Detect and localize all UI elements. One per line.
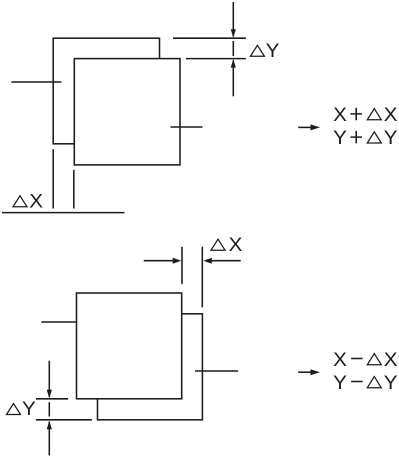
- bottom dX dimension: right vertical line (back square right edge extended): [201, 247, 203, 308]
- top diagram: front square (shifted +X +Y), occludes back square: [74, 59, 180, 165]
- bottom dY label: triangle (delta): [7, 404, 21, 415]
- svg-text:Y: Y: [266, 41, 280, 62]
- bottom dY dimension: down arrowhead: [47, 390, 52, 398]
- top dX label: triangle (delta): [13, 196, 27, 207]
- top dX dimension: right vertical line (front square left edge extended): [73, 170, 75, 209]
- bottom dY dimension: upper dimension line (front square bottom edge extended): [36, 398, 68, 400]
- top dY dimension: up arrowhead: [231, 59, 236, 67]
- top dY label: triangle (delta): [250, 45, 264, 56]
- bottom diagram: front square (nominal position), occludes back square: [77, 293, 182, 399]
- top result arrow: [298, 126, 313, 128]
- bottom result arrow: [298, 371, 313, 373]
- top diagram: right center tick: [171, 126, 203, 128]
- svg-text:X: X: [384, 350, 398, 371]
- svg-text:X: X: [384, 105, 398, 126]
- svg-text:Y: Y: [22, 399, 36, 420]
- top result text line 1: triangle (delta): [367, 109, 381, 120]
- top dY dimension: down arrow stem: [232, 2, 234, 37]
- top diagram: back square (nominal position): [53, 38, 159, 144]
- bottom dY dimension: up arrow stem: [48, 422, 50, 456]
- bottom result text line 1: triangle (delta): [367, 354, 381, 365]
- svg-text:Y: Y: [333, 373, 347, 394]
- bottom dX dimension: left arrow stem: [144, 260, 174, 262]
- svg-text:Y: Y: [333, 128, 347, 149]
- svg-text:Y: Y: [384, 128, 398, 149]
- top dY dimension: up arrow stem: [232, 60, 234, 96]
- top dX dimension: base line: [2, 212, 125, 214]
- top result text line 1: plus sign: [350, 108, 362, 120]
- top dY dimension: connector between lines: [232, 41, 234, 56]
- bottom diagram: right center tick: [195, 370, 238, 372]
- svg-text:X: X: [229, 235, 243, 256]
- bottom result text line 2: minus sign: [351, 381, 363, 383]
- bottom dY dimension: down arrow stem: [48, 361, 50, 397]
- bottom dY dimension: up arrowhead: [47, 421, 52, 429]
- bottom diagram: back square (shifted -X -Y): [98, 314, 203, 420]
- bottom dX dimension: right arrow stem: [211, 260, 241, 262]
- bottom dY dimension: lower dimension line (back square bottom edge extended): [36, 419, 92, 421]
- bottom diagram: left center tick: [41, 321, 76, 323]
- bottom dX dimension: right (left-pointing) arrowhead: [203, 258, 212, 264]
- top dX dimension: left vertical line (back square left edge extended): [52, 149, 54, 208]
- svg-text:X: X: [333, 350, 347, 371]
- bottom dX dimension: left (right-pointing) arrowhead: [173, 258, 182, 264]
- svg-text:X: X: [333, 105, 347, 126]
- top dY dimension: down arrowhead: [231, 29, 236, 37]
- top dY dimension: upper extension line (back square top edge): [173, 37, 246, 39]
- top diagram: left center tick: [11, 81, 61, 83]
- bottom dX dimension: left vertical line (front square right edge extended): [181, 247, 183, 284]
- svg-text:X: X: [29, 192, 43, 213]
- top result text line 2: plus sign: [350, 131, 362, 143]
- svg-text:Y: Y: [384, 373, 398, 394]
- bottom dX label: triangle (delta): [211, 239, 225, 250]
- bottom dY dimension: connector between lines: [48, 402, 50, 416]
- bottom result text line 2: triangle (delta): [367, 377, 381, 388]
- top dY dimension: lower extension line (front square top edge): [186, 58, 246, 60]
- bottom result text line 1: minus sign: [351, 358, 363, 360]
- top result text line 2: triangle (delta): [367, 132, 381, 143]
